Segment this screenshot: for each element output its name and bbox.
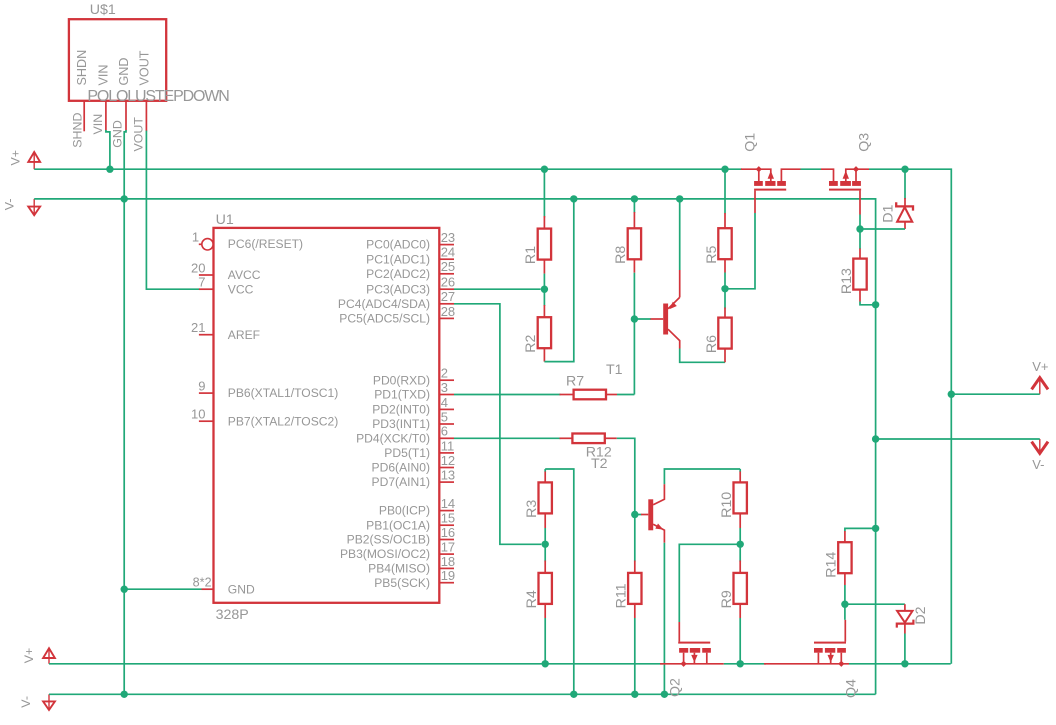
T2 base wire: [635, 514, 642, 516]
resistor R6: [718, 318, 731, 349]
Q4 drain lead: [817, 653, 819, 664]
node R5/R6/Q1 gate junction: [721, 285, 728, 292]
wire VIN to V+: [106, 130, 110, 169]
Q2 body lead: [693, 653, 695, 664]
pin VOUT stub: [145, 101, 147, 132]
svg-text:10: 10: [191, 407, 205, 422]
svg-text:7: 7: [198, 275, 205, 290]
R14 top lead: [844, 531, 846, 543]
wire base node to R11: [634, 515, 636, 562]
svg-text:13: 13: [441, 468, 455, 483]
svg-text:5: 5: [441, 409, 448, 424]
resistor R8: [628, 228, 641, 259]
wire V+ bottom rail left: [49, 663, 663, 665]
resistor R1: [538, 229, 551, 260]
node R3 net/V- junction: [570, 691, 577, 698]
supply V+ bottom left: [43, 648, 55, 658]
svg-text:PD7(AIN1): PD7(AIN1): [372, 475, 430, 489]
R12 left lead: [560, 437, 573, 439]
svg-text:PB6(XTAL1/TOSC1): PB6(XTAL1/TOSC1): [228, 386, 338, 400]
wire: [439, 539, 454, 541]
svg-text:6: 6: [441, 424, 448, 439]
node V- bottom junction: [121, 691, 128, 698]
wire: [202, 588, 214, 590]
wire to V+ arrow: [951, 393, 1040, 395]
svg-text:R4: R4: [524, 590, 540, 608]
Q4 body lead: [830, 653, 832, 664]
svg-text:4: 4: [441, 395, 448, 410]
svg-text:V-: V-: [19, 696, 33, 708]
svg-text:PD5(T1): PD5(T1): [384, 446, 430, 460]
wire to V- arrow: [876, 438, 1040, 440]
svg-text:R1: R1: [523, 246, 539, 264]
Q4 pin junction: [838, 661, 844, 667]
supply V- bottom left: [43, 701, 55, 710]
wire pin6 to R12: [454, 437, 561, 439]
svg-text:16: 16: [441, 525, 455, 540]
resistor R10: [734, 482, 747, 513]
wire V+ top rail: [34, 168, 742, 170]
svg-text:GND: GND: [111, 120, 125, 148]
svg-text:PD4(XCK/T0): PD4(XCK/T0): [356, 431, 430, 445]
svg-text:R14: R14: [824, 552, 840, 578]
node T1 base junction: [631, 315, 638, 322]
resistor R11: [628, 573, 641, 604]
svg-text:V+: V+: [9, 150, 23, 166]
node R11/V- junction: [631, 691, 638, 698]
svg-text:15: 15: [441, 511, 455, 526]
svg-text:VCC: VCC: [228, 282, 254, 296]
wire: [439, 317, 454, 319]
wire: [439, 437, 454, 439]
regulator module U$1: [69, 19, 166, 101]
wire Q3 gate to node: [859, 215, 861, 230]
node D1/V+ junction: [901, 166, 908, 173]
svg-text:27: 27: [441, 289, 455, 304]
wire: [439, 303, 454, 305]
wire: [199, 334, 214, 336]
Q1 source lead: [758, 169, 760, 181]
svg-text:PB5(SCK): PB5(SCK): [374, 576, 430, 590]
wire: [439, 452, 454, 454]
svg-text:24: 24: [441, 245, 455, 260]
wire: [439, 258, 454, 260]
svg-text:POLOLUSTEPDOWN: POLOLUSTEPDOWN: [87, 88, 229, 105]
R1 bottom lead: [543, 260, 545, 274]
svg-text:PD1(TXD): PD1(TXD): [374, 388, 430, 402]
R7 left lead: [560, 394, 574, 396]
svg-text:VOUT: VOUT: [131, 117, 145, 152]
R5 bottom lead: [724, 259, 726, 273]
svg-text:PB1(OC1A): PB1(OC1A): [366, 518, 430, 532]
Q3 source lead: [855, 169, 857, 181]
svg-text:R3: R3: [524, 500, 540, 518]
svg-text:AREF: AREF: [228, 328, 260, 342]
node D2/V+ junction: [901, 660, 908, 667]
wire R9 to V+ rail: [739, 618, 741, 664]
wire: [439, 481, 454, 483]
R1 top lead: [543, 216, 545, 229]
svg-text:Q3: Q3: [857, 133, 873, 152]
wire R14 to node: [844, 585, 846, 604]
svg-text:23: 23: [441, 230, 455, 245]
node R14/V- junction: [872, 525, 879, 532]
wire: [439, 273, 454, 275]
R14 bottom lead: [844, 574, 846, 585]
svg-text:V+: V+: [22, 648, 36, 664]
svg-text:PC0(ADC0): PC0(ADC0): [366, 238, 430, 252]
T1 base wire: [634, 318, 651, 320]
R7 right lead: [606, 394, 617, 396]
R10 bottom lead: [739, 514, 741, 528]
wire R3 top stub: [544, 469, 546, 472]
svg-text:328P: 328P: [216, 607, 249, 623]
svg-text:25: 25: [441, 259, 455, 274]
svg-text:18: 18: [441, 554, 455, 569]
svg-text:VIN: VIN: [96, 65, 110, 86]
node R8/V- junction: [631, 195, 638, 202]
node T1 emitter/V- junction: [676, 195, 683, 202]
Q1 pin junction: [756, 166, 762, 172]
R3 bottom lead: [544, 514, 546, 528]
wire U$1 GND down V-: [124, 130, 126, 589]
resistor R14: [838, 542, 851, 573]
supply V- right: [1032, 442, 1048, 454]
wire pin3 to R7: [454, 394, 561, 396]
R2 top lead: [543, 305, 545, 318]
T1 base lead: [651, 318, 664, 320]
wire V- to R8: [633, 199, 635, 213]
wire node to R4: [544, 544, 546, 561]
svg-text:PB2(SS/OC1B): PB2(SS/OC1B): [347, 533, 430, 547]
wire V+ to R5: [724, 169, 726, 213]
svg-text:R13: R13: [839, 268, 855, 294]
svg-text:28: 28: [441, 304, 455, 319]
R12 right lead: [605, 437, 617, 439]
node R3/R4/pin27 junction: [542, 541, 549, 548]
wire: [439, 582, 454, 584]
pin GND stub: [125, 101, 127, 131]
supply V+ top left: [28, 152, 40, 162]
node VIN/V+ junction: [106, 166, 113, 173]
R4 bottom lead: [544, 604, 546, 618]
R13 top lead: [859, 249, 861, 260]
svg-text:20: 20: [191, 260, 205, 275]
svg-text:PC1(ADC1): PC1(ADC1): [366, 252, 430, 266]
wire node to D2: [845, 603, 905, 605]
wire R3 top to V- rail: [545, 469, 574, 694]
wire V- vertical lower: [123, 589, 125, 694]
wire: [199, 288, 214, 290]
svg-text:AVCC: AVCC: [228, 268, 261, 282]
wire R5 to node: [724, 273, 726, 289]
node R2 net/V- junction: [570, 195, 577, 202]
svg-text:VOUT: VOUT: [138, 50, 152, 85]
svg-text:3: 3: [441, 380, 448, 395]
wire: [439, 288, 454, 290]
Q1 gate lead: [754, 191, 756, 213]
svg-text:11: 11: [441, 438, 455, 453]
wire Q1 gate to R5/R6 node: [725, 213, 755, 289]
svg-text:PB4(MISO): PB4(MISO): [368, 562, 430, 576]
wire: [439, 408, 454, 410]
wire D1 anode to R13 node: [860, 228, 905, 230]
svg-text:PD0(RXD): PD0(RXD): [373, 373, 430, 387]
wire node to R9: [739, 544, 741, 561]
wire V+ rail right down: [869, 169, 951, 664]
svg-text:Q1: Q1: [743, 133, 759, 152]
node R5/V+ junction: [721, 166, 728, 173]
wire: [439, 379, 454, 381]
D1 anode lead: [904, 222, 906, 230]
wire V- bottom rail: [49, 693, 876, 695]
wire R3 to node: [544, 528, 546, 544]
node GND/V- junction: [121, 195, 128, 202]
svg-text:21: 21: [191, 320, 205, 335]
wire T1 emitter to V-: [679, 199, 681, 270]
svg-text:R6: R6: [704, 335, 720, 353]
R9 top lead: [739, 561, 741, 574]
svg-text:SHND: SHND: [70, 113, 84, 148]
wire: [439, 467, 454, 469]
svg-text:R8: R8: [613, 246, 629, 264]
svg-text:R2: R2: [523, 334, 539, 352]
wire D2 to V+ rail: [904, 634, 906, 664]
D1 cathode lead: [904, 198, 906, 206]
wire: [439, 524, 454, 526]
Q2 gate lead: [678, 622, 680, 642]
node R9/V+ junction: [737, 660, 744, 667]
wire node to R13: [859, 229, 861, 249]
wire V- top rail right down: [34, 199, 875, 694]
svg-text:26: 26: [441, 275, 455, 290]
D2 anode lead: [904, 624, 906, 634]
resistor R7: [574, 390, 606, 400]
wire: [199, 243, 202, 245]
wire V+ to D1: [904, 169, 906, 199]
svg-text:Q4: Q4: [844, 679, 860, 698]
R3 top lead: [544, 472, 546, 484]
svg-text:17: 17: [441, 540, 455, 555]
Q4 source lead: [840, 653, 842, 664]
wire V- to R14: [845, 528, 876, 531]
wire: [439, 510, 454, 512]
svg-text:PC3(ADC3): PC3(ADC3): [366, 282, 430, 296]
Q1 drain lead: [781, 169, 800, 181]
R5 top lead: [724, 213, 726, 229]
svg-text:PD3(INT1): PD3(INT1): [372, 417, 430, 431]
wire R11 to V- rail: [634, 618, 636, 694]
wire: [439, 244, 454, 246]
svg-text:2: 2: [441, 366, 448, 381]
wire R8 to R7/base: [633, 273, 635, 395]
svg-text:T1: T1: [606, 362, 623, 378]
svg-text:V+: V+: [1032, 359, 1048, 374]
svg-text:PC6(/RESET): PC6(/RESET): [228, 237, 303, 251]
svg-text:V-: V-: [1032, 457, 1044, 472]
svg-text:PB7(XTAL2/TOSC2): PB7(XTAL2/TOSC2): [228, 414, 338, 428]
wire V+ to R1: [543, 169, 545, 217]
svg-text:V-: V-: [3, 198, 17, 210]
Q2 drain lead: [706, 653, 708, 664]
node V+ arrow junction: [948, 391, 955, 398]
T2 base lead: [641, 514, 648, 516]
Q3 drain lead: [821, 169, 834, 181]
wire: [199, 274, 214, 276]
resistor R4: [539, 573, 552, 604]
wire pin26 to R1/R2: [454, 288, 541, 290]
R4 top lead: [544, 561, 546, 574]
node T2 emitter/V- junction: [661, 691, 668, 698]
node Q3 gate/D1/R13 junction: [856, 225, 863, 232]
svg-text:PC5(ADC5/SCL): PC5(ADC5/SCL): [339, 312, 430, 326]
wire node to Q4 gate: [844, 604, 846, 620]
svg-text:PB3(MOSI/OC2): PB3(MOSI/OC2): [340, 547, 430, 561]
svg-text:Q2: Q2: [668, 678, 684, 697]
Q3 gate lead: [859, 191, 861, 215]
resistor R3: [539, 482, 552, 513]
svg-text:PD6(AIN0): PD6(AIN0): [372, 461, 430, 475]
Q2 pin junction: [680, 661, 686, 667]
wire R10 to node: [739, 528, 741, 544]
R8 bottom lead: [633, 259, 635, 272]
svg-text:19: 19: [441, 568, 455, 583]
resistor R2: [538, 317, 551, 348]
wire R1 to node: [543, 274, 545, 290]
node R1/R2 junction: [541, 286, 548, 293]
wire node to R6: [724, 289, 726, 309]
pin VIN stub: [105, 101, 107, 131]
node R1/V+ junction: [541, 166, 548, 173]
svg-text:12: 12: [441, 453, 455, 468]
R11 top lead: [634, 561, 636, 574]
supply V- top left: [28, 207, 40, 216]
svg-text:SHDN: SHDN: [75, 50, 89, 86]
svg-text:R9: R9: [719, 590, 735, 608]
Q4 gate lead: [844, 620, 846, 642]
R6 bottom lead: [724, 348, 726, 362]
wire GND pin U1: [124, 588, 201, 590]
svg-text:D2: D2: [913, 606, 929, 624]
wire R12 to T2 base: [617, 438, 635, 514]
svg-text:T2: T2: [591, 456, 608, 472]
wire R4 to V+ rail: [544, 618, 546, 664]
wire T1 collector to R6: [680, 349, 725, 363]
wire: [439, 423, 454, 425]
wire: [199, 420, 214, 422]
svg-text:PD2(INT0): PD2(INT0): [372, 403, 430, 417]
node R4/V+ junction: [542, 660, 549, 667]
svg-text:D1: D1: [881, 204, 897, 222]
pin SHDN stub: [83, 101, 85, 132]
supply V+ right: [1032, 378, 1048, 390]
svg-text:R10: R10: [719, 492, 735, 518]
svg-text:VIN: VIN: [91, 114, 105, 135]
wire V+ bottom rail mid: [724, 663, 766, 665]
svg-text:PC4(ADC4/SDA): PC4(ADC4/SDA): [338, 297, 430, 311]
wire R13 to V- vertical: [860, 302, 876, 305]
svg-text:9: 9: [198, 379, 205, 394]
resistor R12: [572, 434, 604, 444]
resistor R5: [718, 228, 731, 259]
node R9/R10/Q2 gate junction: [737, 541, 744, 548]
svg-text:PB0(ICP): PB0(ICP): [379, 504, 430, 518]
svg-text:U1: U1: [216, 212, 234, 228]
node T2 base junction: [631, 511, 638, 518]
R2 bottom lead: [543, 348, 545, 361]
wire R2 to V- rail: [544, 199, 573, 362]
wire T2 emitter to V- rail: [663, 543, 665, 695]
wire pin27 to R3/R4: [454, 304, 541, 545]
Q4 rail segment: [764, 663, 849, 665]
Q3 body lead and rail: [846, 169, 869, 181]
D2 cathode lead: [904, 604, 906, 611]
resistor R9: [734, 573, 747, 604]
svg-text:14: 14: [441, 496, 455, 511]
svg-text:8*2: 8*2: [193, 576, 212, 590]
svg-text:R7: R7: [566, 374, 584, 390]
svg-text:1: 1: [192, 229, 199, 244]
svg-text:R11: R11: [614, 583, 630, 608]
wire: [439, 553, 454, 555]
wire V+ bottom rail right: [849, 663, 951, 665]
svg-text:U$1: U$1: [90, 2, 116, 18]
node GND pin junction: [121, 586, 128, 593]
R6 top lead: [724, 308, 726, 319]
svg-text:GND: GND: [117, 58, 131, 86]
node R13/V- junction: [872, 301, 879, 308]
Q2 source lead: [683, 653, 685, 664]
svg-text:GND: GND: [228, 582, 255, 596]
R10 top lead: [739, 472, 741, 484]
wire R7 to base column: [617, 394, 634, 396]
R9 bottom lead: [739, 604, 741, 618]
node R14/D2/Q4 gate junction: [841, 601, 848, 608]
R11 bottom lead: [634, 604, 636, 618]
wire Q2 gate to R9/R10 node: [679, 544, 740, 622]
resistor R13: [853, 259, 866, 290]
wire R10 top stub: [739, 469, 741, 472]
Q3 pin junction: [853, 166, 859, 172]
wire V+ rail Q1-Q3: [801, 168, 822, 170]
wire T2 collector to R10: [664, 469, 740, 484]
Q2 rail segment: [660, 663, 724, 665]
R8 top lead: [633, 212, 635, 229]
svg-text:PC2(ADC2): PC2(ADC2): [366, 267, 430, 281]
node V- arrow junction: [872, 435, 879, 442]
wire: [439, 394, 454, 396]
Q1 source rail and body lead: [741, 169, 771, 181]
wire: [199, 392, 214, 394]
wire node to R2: [543, 289, 545, 306]
svg-text:R5: R5: [704, 245, 720, 263]
wire VOUT to VCC: [146, 131, 199, 290]
wire: [439, 567, 454, 569]
R13 bottom lead: [859, 290, 861, 302]
microcontroller U1 ATmega328P: [214, 228, 440, 603]
